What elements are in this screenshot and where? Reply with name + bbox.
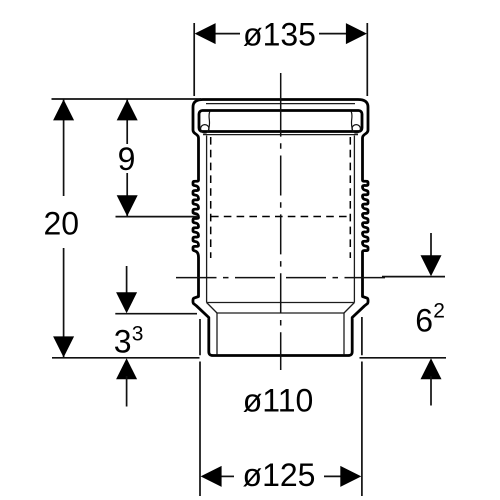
flange reference line (115, 313, 197, 315)
vertical centre line (280, 73, 282, 370)
dim ø125 line right (324, 475, 344, 477)
spigot inner wall right (343, 313, 345, 355)
dim ø135 arrow left (195, 23, 216, 44)
dim 9 line lower (126, 173, 128, 217)
svg-text:3: 3 (114, 324, 132, 360)
gasket lip right (352, 125, 360, 133)
dim 6-2 arrow down (421, 255, 442, 276)
dim 3-3 arrow up (116, 358, 137, 379)
dim ø125 arrow left (201, 466, 222, 487)
dim 9 line upper (126, 99, 128, 144)
svg-text:ø125: ø125 (243, 457, 316, 493)
rim inner edge below ring (203, 134, 358, 136)
dim ø125 line left (218, 475, 234, 477)
sleeve outer profile (193, 100, 368, 356)
dim ø125 extension line left (199, 319, 201, 496)
dim ø135 line left (212, 33, 240, 35)
dim 6-2 arrow line above (430, 233, 432, 259)
bottom reference line left (52, 357, 200, 359)
rim inner edge top (206, 103, 355, 105)
cone top edge (207, 302, 355, 304)
svg-text:9: 9 (118, 141, 136, 177)
dim 6-2 arrow line below (430, 376, 432, 406)
dim 6-2 upper reference line (382, 276, 445, 278)
cone inner diagonal right (344, 303, 354, 314)
cone bottom edge (217, 312, 344, 314)
hidden bore line left (dashed) (210, 137, 212, 258)
cone inner diagonal left (207, 303, 217, 314)
insertion depth hidden line (211, 216, 350, 218)
svg-text:3: 3 (132, 322, 144, 345)
bottom reference line right (360, 357, 447, 359)
dim 20 line lower (63, 248, 65, 358)
dim 6-2 arrow up (421, 358, 442, 379)
dim 20 arrow up (53, 99, 74, 120)
dim ø125 extension line right (361, 317, 363, 496)
socket inner wall right (353, 136, 355, 303)
hidden bore line right (dashed) (349, 137, 351, 258)
svg-text:20: 20 (44, 205, 80, 241)
depth 9 reference line (116, 216, 199, 218)
spigot inner wall left (216, 313, 218, 355)
svg-text:6: 6 (415, 303, 433, 339)
dim 9 arrow up (117, 99, 138, 120)
svg-text:ø135: ø135 (243, 17, 316, 53)
gasket lip left (201, 125, 209, 133)
dim 3-3 arrow line above (126, 266, 128, 296)
gasket retainer ring (199, 111, 362, 132)
dim ø125 arrow right (340, 466, 361, 487)
dim ø135 extension line left (193, 23, 195, 96)
top reference line (52, 98, 202, 100)
svg-text:2: 2 (433, 299, 445, 322)
dim 20 arrow down (53, 336, 74, 357)
dim ø135 line right (319, 33, 349, 35)
dim 9 arrow down (117, 195, 138, 216)
socket inner wall left (206, 136, 208, 303)
dim 3-3 arrow down (116, 292, 137, 313)
dim ø135 extension line right (366, 23, 368, 96)
dim 20 line upper (63, 99, 65, 196)
dim 3-3 arrow line below (126, 376, 128, 407)
horizontal axis line (176, 277, 385, 279)
dim ø135 arrow right (346, 23, 367, 44)
svg-text:ø110: ø110 (243, 383, 314, 419)
